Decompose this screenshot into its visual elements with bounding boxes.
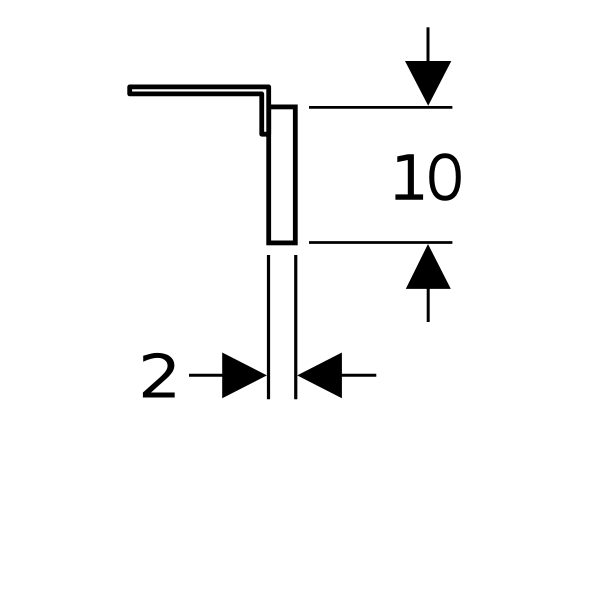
extension line right (below panel, x=295.75) [294,255,297,399]
arrow top (points down at top dim line) [427,27,430,62]
L-profile (thin angle sheet over panel edge) [130,87,269,134]
extension line left (below panel, x=268.5) [267,255,270,399]
dimension line top (10, y=107.4) [309,106,452,109]
label 10 (dimension text) [395,154,423,200]
panel (vertical plate, 2 x 10) [269,107,296,243]
arrow left (points right at left extension line) [189,374,223,377]
dimension line bottom (10, y=242.5) [309,241,452,244]
arrow bottom (points up at bottom dim line) [427,288,430,322]
label 2 (dimension text) [143,353,175,398]
arrow right (points left at right extension line) [341,374,376,377]
